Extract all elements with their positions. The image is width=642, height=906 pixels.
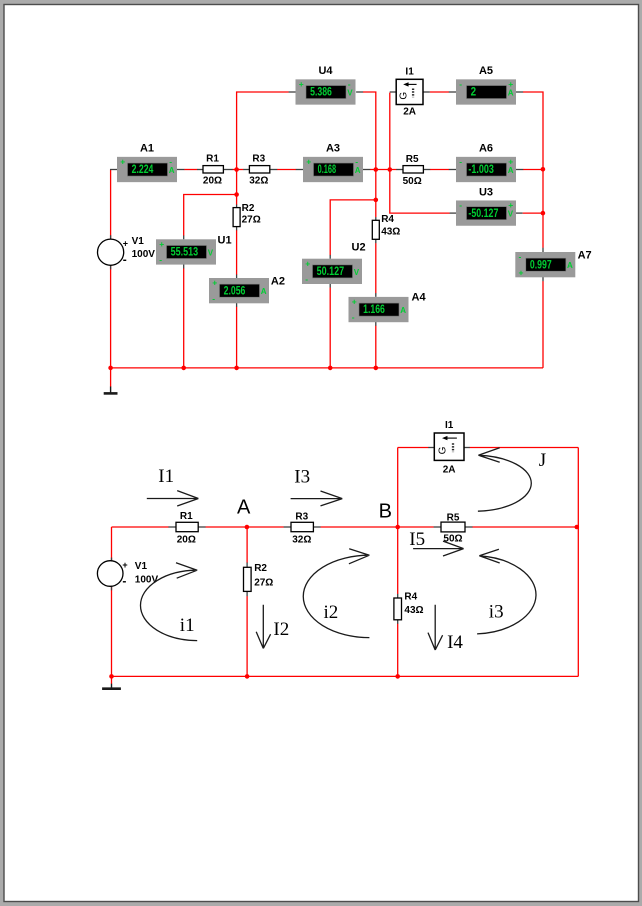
wire B-R4 — [397, 527, 399, 594]
meter A1 — [117, 143, 177, 183]
bottom rail — [112, 675, 579, 677]
junction R4-rail — [395, 674, 400, 679]
I1 right stub — [464, 447, 470, 449]
svg-text:I1: I1 — [445, 420, 454, 431]
svg-text:32Ω: 32Ω — [292, 535, 311, 546]
wire R1-node — [232, 169, 243, 171]
wire R3-R5 — [321, 526, 434, 528]
svg-text:I1: I1 — [158, 466, 174, 487]
R4 bottom stub — [375, 239, 377, 243]
wire node to U2 — [330, 200, 376, 255]
svg-text:+: + — [212, 278, 217, 288]
svg-text:R3: R3 — [252, 153, 265, 164]
arrow arc i1 — [140, 563, 197, 641]
A2 top stub — [236, 275, 238, 279]
voltage source V1 — [98, 236, 156, 267]
wire to R4 — [375, 200, 377, 217]
A3 left stub — [296, 169, 303, 171]
wire R5-A6 — [430, 169, 449, 171]
R2 top stub — [246, 563, 248, 568]
svg-text:A: A — [169, 166, 175, 175]
svg-text:1.166: 1.166 — [363, 302, 385, 316]
svg-text:-: - — [459, 200, 462, 210]
node A junction — [245, 525, 250, 530]
meter A4 — [349, 292, 427, 323]
wire A6-rail — [523, 169, 543, 171]
svg-text:R2: R2 — [242, 203, 255, 214]
wire left-R1 — [112, 526, 169, 528]
svg-text:A: A — [400, 306, 406, 315]
A1 right stub — [177, 169, 184, 171]
U3 left stub — [450, 212, 457, 214]
wire R2-rail — [246, 596, 248, 676]
current source I1 — [434, 420, 464, 476]
wire R4-rail — [397, 624, 399, 677]
svg-text:A: A — [508, 89, 514, 98]
svg-text:43Ω: 43Ω — [404, 605, 423, 616]
I1 left stub — [390, 91, 397, 93]
svg-text:R1: R1 — [180, 511, 193, 522]
R4 bottom stub — [397, 620, 399, 624]
U1 top stub — [183, 236, 185, 240]
svg-text:+: + — [123, 239, 128, 249]
V1 bottom stub — [111, 586, 113, 590]
svg-text:A: A — [567, 261, 573, 270]
R1 left stub — [168, 526, 176, 528]
wire B up — [397, 448, 399, 528]
svg-text:I4: I4 — [447, 632, 463, 653]
svg-text:27Ω: 27Ω — [254, 577, 273, 588]
junction U3-rail — [541, 211, 546, 216]
junction U1-rail — [181, 366, 186, 371]
meter A7 — [515, 250, 591, 278]
svg-text:-: - — [212, 293, 215, 303]
svg-text:R2: R2 — [254, 563, 267, 574]
wire A2 to rail — [236, 307, 238, 368]
junction U2-rail — [328, 366, 333, 371]
resistor R4 — [394, 592, 424, 620]
wire node to U1 — [184, 195, 237, 236]
resistor R3 — [291, 512, 313, 546]
svg-text:+: + — [305, 258, 310, 268]
svg-text:0.168: 0.168 — [318, 162, 337, 176]
R5 right stub — [423, 169, 430, 171]
arrow I3 — [291, 491, 343, 506]
meter U2 — [302, 242, 366, 284]
svg-text:+: + — [299, 79, 304, 89]
svg-text:A2: A2 — [271, 275, 285, 287]
wire A-R2 — [246, 527, 248, 563]
R5 right stub — [465, 526, 473, 528]
junction A6-rail — [541, 167, 546, 172]
wire I1-A5 — [430, 91, 449, 93]
A3 right stub — [363, 169, 370, 171]
svg-text:+: + — [306, 156, 311, 166]
svg-text:55.513: 55.513 — [171, 245, 199, 259]
svg-text:A: A — [355, 166, 361, 175]
wire left top — [111, 527, 113, 561]
R5 left stub — [396, 169, 403, 171]
svg-text:32Ω: 32Ω — [249, 176, 268, 187]
svg-text:+: + — [508, 200, 513, 210]
I1 left stub — [428, 447, 434, 449]
svg-text:U3: U3 — [479, 186, 493, 198]
resistor R1 — [176, 511, 198, 546]
svg-text:J: J — [539, 450, 546, 471]
svg-text:50Ω: 50Ω — [403, 176, 422, 187]
wire U2 to rail — [329, 288, 331, 368]
svg-text:-: - — [169, 156, 172, 166]
svg-text:-: - — [352, 312, 355, 322]
svg-text:+: + — [352, 297, 357, 307]
junction I1-left — [388, 167, 393, 172]
svg-text:-: - — [519, 252, 522, 262]
A5 right stub — [516, 91, 523, 93]
U1 bottom stub — [183, 264, 185, 268]
U4 right stub — [356, 91, 363, 93]
meter U4 — [296, 65, 356, 104]
svg-text:100V: 100V — [135, 575, 159, 586]
svg-text:-: - — [122, 574, 126, 588]
V1 top stub — [110, 235, 112, 239]
svg-text:+: + — [508, 79, 513, 89]
bottom rail — [111, 367, 543, 369]
ground — [104, 387, 118, 394]
arrow I5 — [413, 541, 464, 556]
svg-text:27Ω: 27Ω — [242, 214, 261, 225]
wire left bottom — [111, 587, 113, 677]
junction A2-rail — [234, 366, 239, 371]
junction rail-ground — [109, 674, 114, 679]
meter U1 — [156, 234, 232, 264]
svg-text:2.056: 2.056 — [224, 283, 246, 297]
svg-text:U4: U4 — [318, 65, 333, 77]
R1 right stub — [198, 526, 206, 528]
svg-text:+: + — [508, 156, 513, 166]
svg-text:U2: U2 — [352, 242, 366, 254]
resistor R3 — [249, 153, 270, 186]
wire U4 left to node — [237, 92, 289, 170]
wire A5 to rail down — [523, 92, 543, 248]
svg-text:I5: I5 — [409, 529, 425, 550]
svg-text:A: A — [237, 497, 251, 519]
svg-text:I2: I2 — [273, 619, 289, 640]
arrow arc J — [478, 448, 531, 511]
svg-text:R5: R5 — [406, 154, 419, 165]
resistor R1 — [203, 153, 223, 186]
svg-text:I3: I3 — [294, 466, 310, 487]
svg-text:-: - — [459, 156, 462, 166]
svg-text:2.224: 2.224 — [132, 162, 154, 176]
svg-text:R4: R4 — [404, 592, 417, 603]
svg-text:-: - — [348, 79, 351, 89]
A7 bottom stub — [542, 277, 544, 281]
svg-text:-: - — [459, 79, 462, 89]
A5 left stub — [449, 91, 456, 93]
svg-text:A7: A7 — [578, 250, 592, 262]
U2 top stub — [329, 255, 331, 259]
U4 left stub — [289, 91, 296, 93]
right rail — [577, 448, 579, 677]
wire A7 to rail — [542, 281, 544, 368]
U3 right stub — [516, 212, 523, 214]
svg-text:A4: A4 — [412, 292, 427, 304]
svg-text:A1: A1 — [140, 143, 154, 155]
junction A4-rail — [374, 366, 379, 371]
svg-text:i1: i1 — [180, 615, 195, 636]
R2 top stub — [236, 205, 238, 208]
svg-text:i2: i2 — [324, 602, 339, 623]
svg-text:43Ω: 43Ω — [381, 226, 400, 237]
R3 right stub — [313, 526, 321, 528]
A6 right stub — [516, 169, 523, 171]
svg-text:V: V — [347, 89, 353, 98]
svg-text:-50.127: -50.127 — [468, 206, 498, 220]
svg-text:-: - — [355, 156, 358, 166]
R4 top stub — [375, 217, 377, 220]
resistor R5 — [441, 513, 465, 545]
svg-text:A5: A5 — [479, 65, 493, 77]
R3 right stub — [270, 169, 277, 171]
svg-text:A: A — [261, 287, 267, 296]
wire I1-corner — [470, 447, 579, 449]
svg-text:+: + — [122, 560, 127, 570]
meter A6 — [456, 143, 516, 183]
svg-text:R1: R1 — [206, 153, 219, 164]
svg-text:V1: V1 — [135, 561, 148, 572]
resistor R2 — [233, 203, 261, 227]
U2 bottom stub — [329, 284, 331, 288]
ground — [102, 684, 121, 689]
R1 right stub — [223, 169, 232, 171]
svg-text:+: + — [519, 267, 524, 277]
svg-text:A6: A6 — [479, 143, 493, 155]
wire U3 to rail — [523, 212, 543, 214]
svg-text:V: V — [208, 249, 214, 258]
svg-text:G: G — [399, 92, 410, 100]
wire R4-A4 — [375, 243, 377, 293]
R3 left stub — [243, 169, 249, 171]
svg-text:+: + — [159, 239, 164, 249]
svg-text:-: - — [159, 255, 162, 265]
svg-text:R3: R3 — [295, 512, 308, 523]
svg-text:V1: V1 — [132, 236, 145, 247]
node B junction — [395, 525, 400, 530]
ground lead — [111, 676, 113, 684]
wire A4 to rail — [375, 326, 377, 368]
A4 bottom stub — [375, 322, 377, 326]
ground lead — [110, 368, 112, 387]
wire I1 left down to U3 — [390, 93, 450, 214]
wire node to R2 — [236, 170, 238, 205]
wire R5-rail — [473, 526, 579, 528]
meter U3 — [456, 186, 516, 226]
wire U1 to rail — [183, 268, 185, 368]
wire V1 bottom — [110, 265, 112, 368]
svg-text:i3: i3 — [489, 601, 504, 622]
meter A5 — [456, 65, 516, 104]
svg-text:V: V — [508, 210, 514, 219]
svg-text:-: - — [123, 253, 127, 267]
svg-text:5.386: 5.386 — [310, 85, 332, 99]
svg-text:R4: R4 — [381, 214, 394, 225]
junction U4-right — [374, 167, 379, 172]
junction main-rail — [575, 525, 580, 530]
resistor R5 — [403, 154, 424, 187]
A1 left stub — [110, 169, 117, 171]
arrow arc i3 — [477, 549, 536, 634]
meter A3 — [303, 143, 363, 183]
I1 right stub — [423, 91, 430, 93]
junction node R1/R3/R2/U4 — [234, 167, 239, 172]
R1 left stub — [197, 169, 203, 171]
arrow I2 — [256, 605, 270, 649]
svg-text:20Ω: 20Ω — [177, 535, 196, 546]
svg-text:G: G — [438, 446, 449, 454]
svg-text:100V: 100V — [132, 249, 156, 260]
svg-text:-: - — [305, 274, 308, 284]
R5 left stub — [434, 526, 442, 528]
arrow I4 — [428, 605, 443, 650]
svg-text:2A: 2A — [443, 465, 456, 476]
svg-text:2A: 2A — [403, 107, 416, 118]
junction R2/U1 — [234, 192, 239, 197]
svg-text:V: V — [354, 268, 360, 277]
wire V1 top — [110, 170, 112, 240]
svg-text:0.997: 0.997 — [530, 257, 552, 271]
R4 top stub — [397, 594, 399, 598]
voltage source V1 — [97, 560, 158, 588]
A2 bottom stub — [236, 303, 238, 307]
svg-text:2: 2 — [471, 85, 477, 99]
arrow arc i2 — [303, 549, 369, 638]
R2 bottom stub — [236, 226, 238, 230]
svg-text:B: B — [379, 501, 392, 523]
current source I1 — [396, 67, 423, 118]
wire R2-A2 — [236, 230, 238, 274]
svg-text:A3: A3 — [326, 143, 340, 155]
wire R1-R3 — [206, 526, 284, 528]
meter A2 — [209, 275, 285, 303]
svg-text:+: + — [120, 156, 125, 166]
arrow I1 — [147, 491, 199, 506]
wire A3-R5 — [370, 169, 397, 171]
A6 left stub — [449, 169, 456, 171]
junction R2-rail — [245, 674, 250, 679]
R3 left stub — [284, 526, 292, 528]
svg-text:-1.003: -1.003 — [468, 162, 494, 176]
resistor R4 — [372, 214, 400, 240]
junction R4/U2 — [374, 198, 379, 203]
R2 bottom stub — [246, 591, 248, 596]
svg-text:I1: I1 — [405, 67, 414, 78]
resistor R2 — [244, 563, 274, 592]
wire to I1 — [398, 447, 429, 449]
A4 top stub — [375, 293, 377, 297]
svg-text:U1: U1 — [218, 234, 232, 246]
A7 top stub — [542, 248, 544, 252]
svg-text:20Ω: 20Ω — [203, 176, 222, 187]
svg-text:R5: R5 — [447, 513, 460, 524]
V1 bottom stub — [110, 265, 112, 269]
wire R3-A3 — [277, 169, 296, 171]
V1 top stub — [111, 558, 113, 562]
wire U4 right down — [363, 92, 376, 200]
junction rail-ground — [108, 366, 113, 371]
wire A1-R1 — [184, 169, 197, 171]
svg-text:A: A — [508, 166, 514, 175]
svg-text:50.127: 50.127 — [317, 264, 345, 278]
